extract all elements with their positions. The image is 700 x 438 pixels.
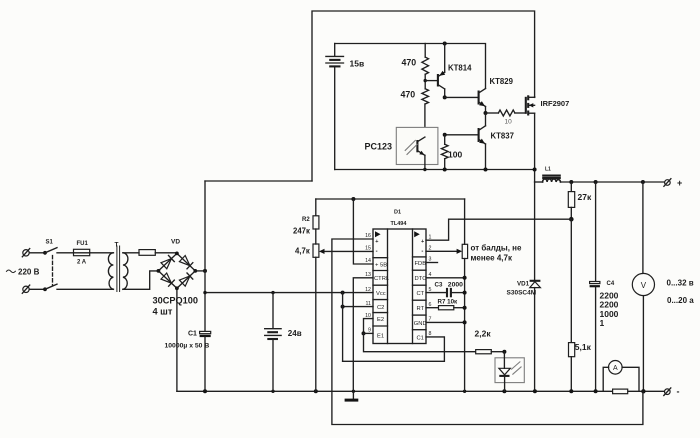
node junction 24v battery top — [271, 291, 274, 294]
node junction C2 / collectors column — [341, 305, 345, 309]
wire pin 14 (+5B) — [353, 199, 373, 264]
meter PA1 ammeter A — [603, 361, 639, 392]
node junction C4 on bottom rail — [594, 389, 598, 393]
wire pin 4 (DTC) to grounded column — [426, 277, 465, 279]
svg-text:-: - — [376, 249, 378, 255]
svg-text:470: 470 — [402, 58, 417, 68]
wire bottom inner rail of driver stage — [335, 169, 535, 171]
capacitor C3 2000 — [426, 282, 465, 298]
node junction DTC on grounded column — [463, 276, 467, 280]
node junction C1 on bottom rail — [203, 389, 207, 393]
svg-text:12: 12 — [365, 287, 371, 293]
svg-text:DTC: DTC — [415, 276, 427, 282]
node junction KT829 emitter / 10 ohm / KT837 collector — [484, 111, 488, 115]
svg-text:220 В: 220 В — [18, 268, 40, 277]
svg-text:9: 9 — [368, 328, 371, 334]
svg-text:C3: C3 — [435, 282, 443, 289]
svg-text:TL494: TL494 — [391, 221, 408, 227]
opto-coupler U2 PC123 (phototransistor) — [365, 127, 438, 169]
svg-text:E1: E1 — [377, 334, 384, 340]
svg-text:RT: RT — [417, 306, 425, 312]
svg-text:E2: E2 — [377, 317, 384, 323]
svg-text:5,1к: 5,1к — [575, 342, 592, 352]
node junction ground stem on bottom rail — [352, 390, 355, 393]
battery GB1 15в — [326, 44, 364, 170]
svg-text:C1: C1 — [417, 335, 424, 341]
IC D1 pin numbers — [365, 233, 431, 337]
svg-text:Vcc: Vcc — [376, 291, 386, 297]
wire grounded column top (reference rail to pot) — [464, 199, 466, 244]
node junction pot bottom on bottom rail — [314, 389, 318, 393]
svg-text:2 A: 2 A — [77, 260, 87, 266]
node junction KT814 collector / KT829 base — [443, 95, 447, 99]
node junction of 470 resistors and KT814 base — [424, 79, 427, 82]
node junction grounded column on bottom rail — [463, 390, 466, 393]
inductor L1 — [535, 167, 561, 183]
svg-text:10: 10 — [365, 313, 371, 319]
wire emitters to 2,2k resistor — [364, 333, 476, 351]
svg-text:D1: D1 — [394, 210, 401, 216]
diode VD1 S30SC4M — [507, 182, 541, 391]
svg-text:0...32 в: 0...32 в — [667, 279, 694, 288]
terminal input L (top) — [22, 249, 45, 257]
terminal output - — [664, 387, 680, 397]
svg-text:R2: R2 — [302, 217, 310, 223]
svg-text:13: 13 — [365, 272, 371, 278]
svg-text:4 шт: 4 шт — [153, 307, 173, 317]
resistor shunt — [613, 389, 628, 394]
IC D1 pin 3 stub (FDB, open) — [426, 262, 438, 264]
label ammeter range — [667, 296, 694, 305]
resistor 5,1к — [569, 219, 592, 391]
svg-text:5: 5 — [429, 287, 432, 293]
resistor 100 — [441, 135, 462, 170]
wire top inner rail to KT829 collector — [335, 44, 486, 89]
terminal input N (bottom) — [22, 285, 45, 293]
wire pin 12 (Vcc) from main bus — [205, 292, 373, 294]
node junction 100 resistor on bottom inner rail — [443, 168, 447, 172]
node junction KT837 emitter on bottom inner rail — [484, 168, 488, 172]
node junction 27k on plus rail — [569, 180, 573, 184]
svg-text:2: 2 — [429, 246, 432, 252]
svg-text:VD: VD — [171, 239, 180, 246]
node junction 5,1k on bottom rail — [569, 389, 573, 393]
node junction RT on grounded column — [463, 306, 467, 310]
wire main plus bus (upper part) — [204, 181, 206, 331]
ground symbol — [345, 391, 359, 401]
resistor 27к — [568, 182, 592, 219]
svg-text:2,2к: 2,2к — [475, 329, 492, 339]
svg-text:+: + — [375, 239, 378, 245]
node junction C4 on plus rail — [594, 180, 598, 184]
IC D1 comparator symbol right (pins 1,2) — [414, 231, 424, 255]
LED of optocoupler (transmit side) — [495, 352, 524, 392]
node junction 27k/5,1k/feedback — [569, 217, 574, 222]
svg-text:10: 10 — [505, 119, 513, 126]
wire pot bottom to bottom rail — [315, 257, 317, 391]
node junction CT on grounded column — [463, 291, 467, 295]
terminal output + — [664, 178, 682, 188]
svg-text:S1: S1 — [46, 240, 54, 246]
node junction PC123 emitter on bottom inner rail — [423, 168, 426, 171]
svg-text:7: 7 — [429, 317, 432, 323]
svg-text:4,7к: 4,7к — [295, 247, 310, 256]
wire secondary bottom to bridge AC2 — [123, 271, 158, 289]
wire feedback to TL494 pin 1 — [426, 219, 571, 240]
svg-text:11: 11 — [366, 301, 372, 307]
wire pin 16 to negative loop — [332, 239, 643, 425]
wire bridge plus to main bus — [195, 270, 205, 272]
svg-text:CTRL: CTRL — [374, 276, 390, 282]
resistor 470 (lower) — [401, 81, 429, 138]
resistor R7 10к — [426, 299, 465, 310]
svg-text:C2: C2 — [377, 305, 384, 311]
label 30CPQ100 — [153, 296, 198, 306]
transistor Q2 KT829 — [479, 77, 514, 113]
svg-text:KT829: KT829 — [490, 77, 514, 86]
svg-text:10000µ x 50 В: 10000µ x 50 В — [165, 343, 210, 350]
svg-text:VD1: VD1 — [517, 280, 530, 287]
svg-text:KT837: KT837 — [491, 132, 514, 141]
transistor Q3 KT837 — [479, 113, 514, 170]
wire lower input to transformer primary — [57, 288, 113, 290]
potentiometer R3 4,7к with wiper to pin 15 — [295, 244, 373, 257]
IC D1 right cell labels — [414, 261, 427, 341]
bridge rectifier VD 30CPQ100 — [157, 239, 198, 291]
svg-text:+: + — [677, 178, 682, 188]
svg-text:4: 4 — [429, 272, 432, 278]
svg-text:470: 470 — [401, 90, 416, 100]
node junction voltmeter on plus rail — [641, 180, 645, 184]
svg-text:R7 10к: R7 10к — [438, 299, 459, 306]
resistor 470 (upper) — [402, 44, 429, 81]
potentiometer R4 (от балды) with wiper to pin 2 — [426, 244, 468, 258]
resistor 10 — [486, 110, 526, 126]
wire bridge minus down to bottom rail — [176, 288, 178, 391]
svg-text:T: T — [115, 242, 119, 249]
svg-text:A: A — [613, 365, 618, 372]
svg-text:PC123: PC123 — [365, 141, 393, 151]
node junction source / inner rail — [533, 168, 537, 172]
wire S1 to FU1 — [57, 252, 74, 254]
svg-text:8: 8 — [429, 331, 432, 337]
wire output plus rail — [560, 181, 664, 183]
transformer T — [108, 242, 128, 292]
svg-text:16: 16 — [365, 233, 371, 239]
wire pin 7 (GND) to grounded column — [426, 321, 465, 323]
svg-text:GND: GND — [414, 321, 427, 327]
capacitor C4 — [590, 182, 619, 391]
svg-text:IRF2907: IRF2907 — [541, 99, 570, 108]
svg-text:14: 14 — [365, 258, 371, 264]
svg-text:100: 100 — [448, 150, 462, 160]
svg-text:1: 1 — [429, 234, 432, 240]
wire FU1 to transformer primary — [90, 252, 114, 254]
node junction +5B column on reference rail — [351, 197, 355, 201]
label 4 шт — [153, 307, 173, 317]
svg-text:KT814: KT814 — [448, 64, 472, 73]
resistor 2,2к — [475, 329, 505, 354]
svg-text:C1: C1 — [188, 330, 197, 337]
svg-text:+ 5B: + 5B — [375, 262, 387, 268]
fuse secondary — [123, 250, 177, 256]
wire KT814 base — [425, 80, 438, 82]
IC D1 left cell labels — [374, 262, 390, 339]
svg-text:0...20 а: 0...20 а — [667, 296, 694, 305]
svg-text:FDB: FDB — [415, 261, 427, 267]
node junction VD1 on bottom rail — [533, 389, 537, 393]
svg-text:1: 1 — [600, 318, 605, 328]
capacitor C1 10000µ x 50 В — [165, 330, 211, 391]
resistor R2 247к — [293, 199, 319, 244]
svg-text:-: - — [421, 249, 423, 255]
svg-text:15в: 15в — [350, 59, 365, 69]
svg-text:S30SC4M: S30SC4M — [507, 290, 537, 297]
svg-text:CT: CT — [417, 291, 425, 297]
node junction LED cathode on bottom rail — [502, 389, 506, 393]
node junction Vcc / output collectors column — [341, 291, 345, 295]
node junction bridge plus on bus — [203, 269, 207, 273]
svg-text:L1: L1 — [545, 167, 551, 173]
svg-text:15: 15 — [365, 246, 371, 252]
node junction 24v battery on bottom rail — [271, 390, 274, 393]
node junction GND on grounded column — [463, 320, 467, 324]
svg-text:C4: C4 — [607, 281, 615, 287]
svg-text:V: V — [641, 281, 647, 290]
switch S1 — [43, 240, 57, 292]
wire pin 10 (E2) — [364, 319, 374, 334]
wire pin 13 (CTRL) to ground rail — [353, 278, 373, 392]
svg-text:FU1: FU1 — [77, 241, 89, 247]
node junction KT814 emitter on top rail — [443, 42, 447, 46]
node junction KT837 base / 100 resistor — [443, 133, 447, 137]
svg-text:30CPQ100: 30CPQ100 — [153, 296, 198, 306]
wire reference top rail (R2 / +5B / right pot) — [316, 198, 465, 200]
wire KT837 base — [445, 134, 479, 136]
svg-text:2000: 2000 — [448, 282, 463, 289]
svg-text:6: 6 — [429, 302, 432, 308]
wire from node at x=205 to enclosure bottom-left corner — [205, 180, 312, 182]
svg-text:3: 3 — [429, 257, 432, 263]
node junction Vcc wire on main bus — [203, 291, 206, 294]
svg-text:+: + — [421, 239, 424, 245]
wire top enclosure: left edge, top edge, right edge down to IRF2907 drain — [312, 11, 535, 181]
svg-text:менее 4,7к: менее 4,7к — [471, 254, 513, 263]
meter PV1 voltmeter V — [632, 182, 654, 391]
label от балды line2 — [471, 254, 513, 263]
wire pin 9 (E1) — [364, 332, 374, 334]
IC D1 comparator symbol left (pins 16,15) — [375, 231, 381, 255]
IC D1 TL494 outline — [373, 210, 426, 344]
svg-text:-: - — [677, 387, 680, 397]
svg-text:от балды, не: от балды, не — [471, 244, 522, 253]
fuse FU1 2A — [74, 241, 90, 266]
node junction voltmeter/loop on bottom rail — [641, 389, 645, 393]
wire bottom common rail — [177, 390, 664, 392]
wire IRF2907 source down to output rail — [534, 113, 536, 182]
transistor VT1 IRF2907 (N-MOSFET) — [526, 95, 569, 115]
label voltmeter range — [667, 279, 694, 288]
battery GB2 24в — [265, 293, 302, 392]
wire KT829 base — [445, 96, 479, 98]
label от балды line1 — [471, 244, 522, 253]
node junction 2,2k to LED — [502, 350, 506, 354]
svg-text:27к: 27к — [578, 192, 592, 202]
svg-text:24в: 24в — [288, 329, 302, 338]
wire collectors column down to C1 pin loop — [342, 293, 344, 362]
wire grounded column (pot to bottom rail) — [464, 259, 466, 392]
svg-text:247к: 247к — [293, 227, 310, 236]
label ~220 В — [7, 268, 40, 277]
transistor Q1 KT814 — [438, 44, 472, 98]
wire pin 11 (C2) — [343, 306, 373, 308]
node junction E1/E2 — [362, 331, 366, 335]
IC D1 cell dividers — [373, 257, 426, 330]
wire pin 8 (C1) loop to collectors column — [343, 337, 445, 361]
